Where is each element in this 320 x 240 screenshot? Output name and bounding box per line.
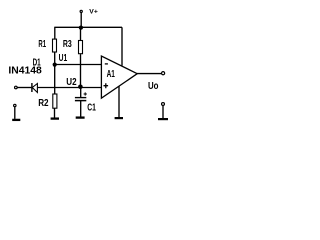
svg-text:C1: C1	[87, 103, 96, 114]
svg-text:Uo: Uo	[148, 81, 159, 92]
svg-text:U1: U1	[59, 53, 68, 64]
svg-text:R2: R2	[38, 98, 49, 109]
svg-text:V+: V+	[89, 9, 98, 16]
svg-text:R1: R1	[38, 39, 46, 50]
svg-text:U2: U2	[66, 77, 77, 88]
svg-text:A1: A1	[107, 69, 116, 80]
svg-text:R3: R3	[63, 39, 72, 50]
svg-text:IN4148: IN4148	[8, 66, 42, 77]
